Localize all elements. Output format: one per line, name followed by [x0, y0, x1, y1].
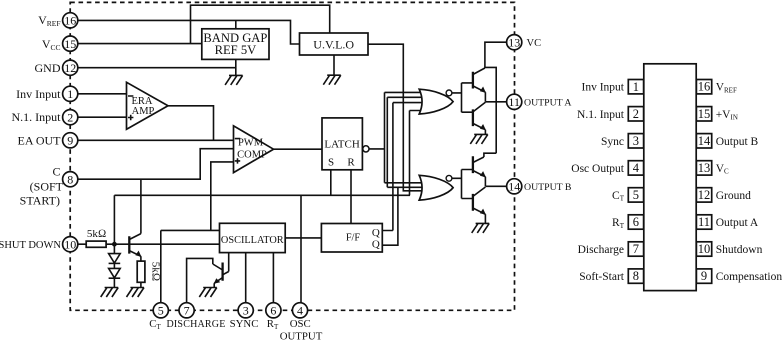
svg-text:Shutdown: Shutdown [716, 244, 763, 256]
svg-text:Q: Q [372, 238, 380, 250]
svg-text:6: 6 [270, 304, 276, 318]
svg-text:16: 16 [698, 80, 711, 94]
svg-text:9: 9 [701, 269, 707, 283]
svg-text:SHUT DOWN: SHUT DOWN [0, 240, 61, 251]
svg-text:N.1. Input: N.1. Input [577, 109, 625, 121]
svg-text:14: 14 [508, 180, 520, 194]
svg-text:Discharge: Discharge [578, 244, 624, 256]
svg-text:VC: VC [527, 38, 542, 49]
svg-text:EA OUT: EA OUT [18, 134, 62, 148]
svg-text:4: 4 [633, 161, 640, 175]
svg-text:10: 10 [64, 237, 76, 251]
svg-text:Ground: Ground [716, 190, 751, 202]
svg-text:REF 5V: REF 5V [215, 43, 257, 57]
svg-text:N.1. Input: N.1. Input [12, 110, 62, 124]
svg-text:START): START) [20, 194, 60, 208]
svg-text:COMP: COMP [237, 149, 267, 160]
svg-text:S: S [328, 157, 334, 169]
svg-text:Inv Input: Inv Input [16, 87, 61, 101]
svg-text:OUTPUT: OUTPUT [280, 331, 323, 341]
svg-text:OUTPUT A: OUTPUT A [524, 97, 571, 108]
svg-text:8: 8 [67, 172, 73, 186]
svg-text:5kΩ: 5kΩ [150, 262, 162, 281]
svg-text:GND: GND [35, 61, 61, 75]
svg-text:OSCILLATOR: OSCILLATOR [221, 235, 284, 246]
svg-text:C: C [52, 165, 60, 179]
svg-text:SYNC: SYNC [230, 318, 259, 330]
svg-text:3: 3 [633, 134, 639, 148]
svg-text:5: 5 [158, 304, 164, 318]
svg-text:11: 11 [508, 95, 520, 109]
svg-text:11: 11 [698, 215, 710, 229]
svg-text:OUTPUT B: OUTPUT B [524, 182, 572, 193]
svg-text:Output B: Output B [716, 136, 759, 148]
svg-text:AMP: AMP [132, 106, 155, 117]
svg-text:7: 7 [633, 242, 639, 256]
svg-text:9: 9 [67, 134, 73, 148]
svg-text:5: 5 [633, 188, 639, 202]
svg-text:5kΩ: 5kΩ [87, 228, 106, 240]
svg-text:R: R [347, 157, 355, 169]
svg-text:OSC: OSC [290, 318, 311, 330]
svg-text:2: 2 [633, 107, 639, 121]
svg-text:Q: Q [372, 227, 380, 239]
svg-text:14: 14 [698, 134, 711, 148]
svg-text:LATCH: LATCH [324, 139, 360, 151]
svg-text:Output A: Output A [716, 217, 759, 229]
svg-text:15: 15 [64, 37, 76, 51]
svg-text:6: 6 [633, 215, 639, 229]
svg-text:Sync: Sync [601, 136, 624, 148]
svg-text:Soft-Start: Soft-Start [579, 271, 625, 283]
svg-text:12: 12 [64, 61, 76, 75]
svg-text:7: 7 [184, 304, 190, 318]
svg-text:8: 8 [633, 269, 639, 283]
svg-text:2: 2 [67, 110, 73, 124]
svg-text:(SOFT: (SOFT [30, 180, 64, 194]
svg-text:Inv Input: Inv Input [582, 82, 625, 94]
svg-text:U.V.L.O: U.V.L.O [313, 37, 354, 51]
svg-text:3: 3 [243, 304, 249, 318]
svg-text:12: 12 [698, 188, 711, 202]
svg-text:1: 1 [633, 80, 639, 94]
svg-text:4: 4 [297, 304, 303, 318]
svg-text:15: 15 [698, 107, 711, 121]
svg-text:16: 16 [64, 14, 76, 28]
svg-text:DISCHARGE: DISCHARGE [166, 319, 225, 330]
svg-text:F/F: F/F [346, 233, 361, 244]
svg-text:13: 13 [508, 35, 520, 49]
svg-text:1: 1 [67, 87, 73, 101]
svg-text:Compensation: Compensation [716, 271, 783, 283]
svg-text:PWM: PWM [238, 137, 264, 148]
svg-text:13: 13 [698, 161, 711, 175]
svg-text:10: 10 [698, 242, 711, 256]
svg-text:Osc Output: Osc Output [571, 163, 625, 175]
